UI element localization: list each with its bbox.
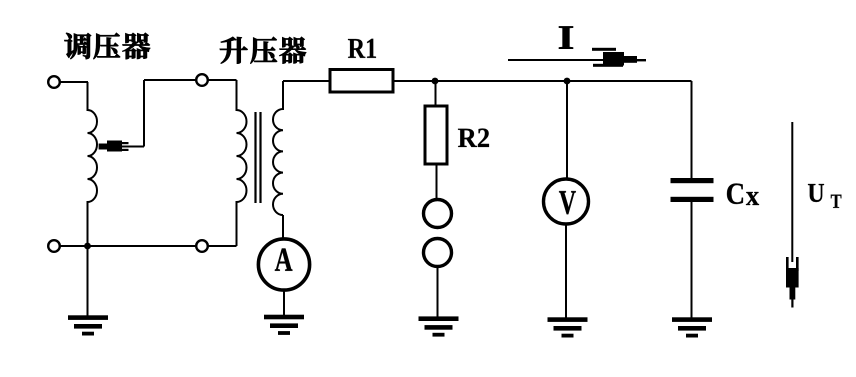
terminal (transformer primary top): [196, 74, 208, 86]
wire R2 to sphere gap: [436, 164, 438, 199]
wire variac coil bottom down: [87, 201, 89, 246]
label 压 (of 升压器): [251, 37, 277, 64]
wire wiper up: [143, 80, 145, 147]
ammeter label A: [275, 249, 293, 271]
label Cx - C: [727, 183, 743, 204]
wire secondary bottom to ammeter: [282, 215, 284, 238]
variac wiper arrow: [99, 141, 129, 152]
ammeter A: [258, 239, 309, 290]
voltmeter V: [544, 179, 589, 224]
current arrowhead: [592, 48, 646, 67]
sphere gap upper ball: [424, 200, 452, 228]
wire secondary->R1: [283, 80, 330, 82]
voltage arrowhead: [786, 257, 799, 308]
wire down to R2: [435, 81, 437, 106]
ground (capacitor): [672, 317, 712, 337]
variac winding: [88, 110, 98, 202]
label R1: [348, 39, 376, 58]
label UT - T subscript: [831, 195, 842, 208]
label R2: [458, 129, 489, 147]
wire down to voltmeter: [566, 81, 568, 179]
terminal (transformer primary bottom): [196, 240, 208, 252]
transformer core: [256, 112, 261, 203]
ground (voltmeter): [548, 317, 588, 337]
wire from wiper right: [122, 146, 144, 148]
junction R2 branch: [432, 78, 439, 85]
wire bottom common: [60, 245, 196, 247]
terminal (variac input top): [48, 76, 60, 88]
resistor R2: [425, 106, 447, 164]
wire capacitor to ground: [691, 202, 693, 318]
label Cx - x subscript: [746, 192, 759, 205]
wire primary bottom to terminal: [208, 245, 237, 247]
label UT - U: [808, 184, 824, 202]
transformer primary winding: [237, 110, 247, 202]
wire terminal->primary: [208, 79, 237, 81]
wire to transformer input terminal: [144, 79, 196, 81]
voltage arrow shaft: [791, 122, 793, 262]
label 器 (of 调压器): [122, 33, 150, 59]
label 调 (of 调压器): [64, 33, 90, 59]
label 压 (of 调压器): [94, 33, 120, 59]
wire voltmeter to ground: [565, 224, 567, 318]
ground (ammeter): [264, 315, 304, 335]
terminal (variac input bottom): [48, 240, 60, 252]
wire R1->capacitor branch (top bus): [393, 80, 692, 82]
ground (sphere gap): [419, 316, 459, 336]
junction voltmeter branch: [564, 78, 571, 85]
label 器 (of 升压器): [280, 37, 307, 64]
voltmeter label V: [559, 191, 576, 214]
sphere gap lower ball: [424, 239, 452, 267]
label 升 (of 升压器): [220, 37, 247, 63]
wire primary top: [236, 80, 238, 111]
wire to ground (variac): [87, 246, 89, 317]
wire terminal->variac top: [60, 81, 88, 83]
junction variac bottom: [84, 243, 91, 250]
capacitor Cx top plate: [671, 178, 714, 183]
transformer secondary winding: [273, 109, 283, 215]
wire sphere gap to ground: [437, 267, 439, 318]
label I: [559, 26, 573, 48]
resistor R1: [330, 70, 393, 93]
wire primary bottom: [236, 201, 238, 246]
wire ammeter to ground: [283, 289, 285, 317]
wire down to variac coil: [87, 82, 89, 111]
wire secondary top up to bus: [282, 81, 284, 110]
wire down to capacitor: [691, 81, 693, 178]
ground (variac): [68, 315, 108, 335]
current arrow shaft: [508, 59, 604, 61]
capacitor Cx bottom plate: [671, 197, 714, 202]
